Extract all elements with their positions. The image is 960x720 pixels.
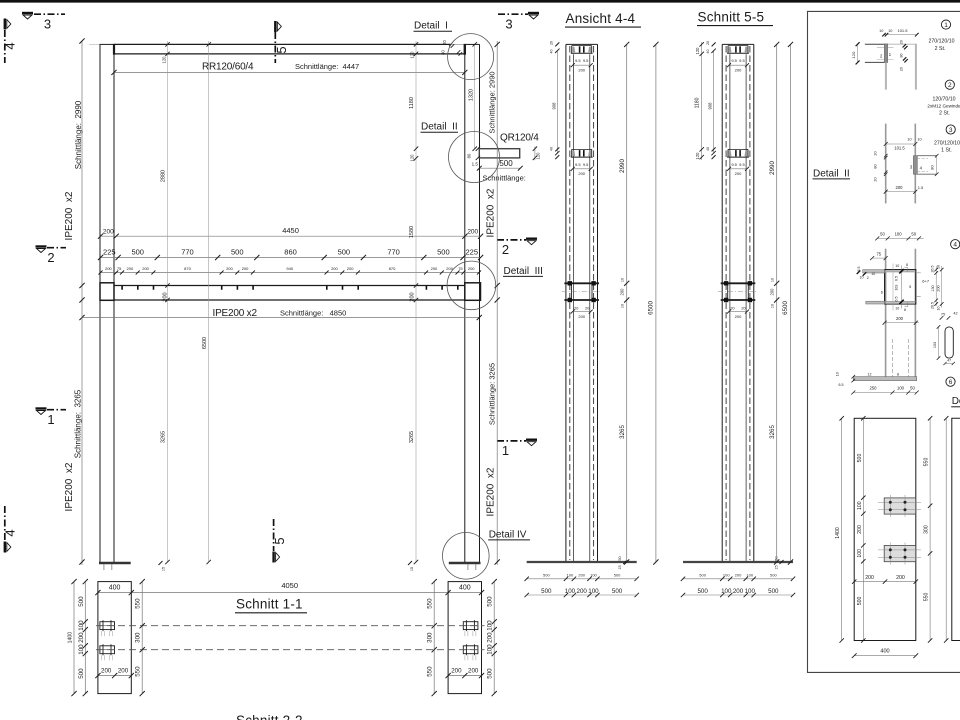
svg-text:2: 2 bbox=[867, 276, 869, 280]
detail 4 top dim 50/100/50 bbox=[877, 237, 923, 239]
svg-text:100: 100 bbox=[565, 588, 576, 595]
svg-text:200: 200 bbox=[577, 588, 588, 595]
svg-text:20: 20 bbox=[442, 40, 447, 45]
svg-text:500: 500 bbox=[612, 588, 623, 595]
svg-text:5: 5 bbox=[272, 537, 287, 544]
top beam bottom line bbox=[114, 53, 465, 55]
svg-text:26.5: 26.5 bbox=[931, 266, 935, 273]
svg-text:100: 100 bbox=[745, 588, 756, 595]
svg-text:200: 200 bbox=[896, 185, 904, 190]
section marker 4 upper-left bbox=[3, 19, 18, 64]
svg-text:400: 400 bbox=[109, 584, 121, 591]
svg-text:1180: 1180 bbox=[695, 97, 701, 108]
svg-text:40: 40 bbox=[550, 50, 554, 54]
svg-text:RR120/60/4: RR120/60/4 bbox=[202, 62, 254, 73]
svg-text:100: 100 bbox=[590, 573, 597, 578]
svg-text:120: 120 bbox=[410, 51, 415, 59]
detail 6 base plate bar bbox=[853, 377, 916, 381]
svg-text:47: 47 bbox=[947, 358, 951, 362]
svg-text:500: 500 bbox=[78, 668, 85, 679]
svg-text:120: 120 bbox=[851, 51, 856, 58]
svg-text:10: 10 bbox=[771, 278, 775, 282]
dim 400 + 4050 + 400 row bbox=[98, 592, 482, 594]
svg-text:2: 2 bbox=[502, 242, 509, 257]
svg-text:550: 550 bbox=[427, 666, 434, 677]
svg-text:500: 500 bbox=[768, 588, 779, 595]
left column anchor bolt stubs bbox=[103, 564, 105, 570]
section marker 1 right bbox=[497, 440, 537, 458]
svg-text:IPE200 x2: IPE200 x2 bbox=[64, 191, 75, 240]
detail 1 left dim 120 bbox=[857, 44, 859, 62]
svg-text:200: 200 bbox=[578, 573, 585, 578]
detail 4 right dims 26.5/130/26.5 and 10/200/10 bbox=[935, 266, 937, 306]
dim row 200/75/200/200/870/... bolt spacing bbox=[101, 272, 480, 274]
svg-text:120: 120 bbox=[695, 152, 700, 160]
svg-text:500: 500 bbox=[131, 247, 144, 256]
svg-text:4: 4 bbox=[953, 242, 957, 249]
middle beam bottom line bbox=[114, 299, 465, 301]
svg-text:500: 500 bbox=[541, 588, 552, 595]
left dim line Schnittlaenge 2990/3265 bbox=[81, 41, 83, 565]
svg-text:20: 20 bbox=[550, 41, 554, 45]
svg-text:550: 550 bbox=[135, 598, 142, 609]
svg-text:50: 50 bbox=[910, 386, 915, 391]
svg-text:8: 8 bbox=[897, 372, 899, 376]
top splice plate + bolts bbox=[728, 45, 748, 47]
section marker 5 bottom-middle bbox=[272, 519, 287, 563]
detail 1 drawing: beam end with plate on column bbox=[865, 43, 888, 45]
svg-text:270/120/10: 270/120/10 bbox=[929, 39, 955, 45]
svg-text:Schnittlänge: 2990: Schnittlänge: 2990 bbox=[488, 71, 497, 133]
svg-text:QR120/4: QR120/4 bbox=[500, 133, 539, 144]
svg-text:50: 50 bbox=[618, 556, 622, 560]
plan right dim 550/300/550 bbox=[929, 418, 931, 640]
svg-text:Det: Det bbox=[952, 396, 960, 407]
svg-text:10: 10 bbox=[895, 307, 899, 311]
svg-text:908: 908 bbox=[551, 102, 556, 110]
Schnitt 1-1 left footing bbox=[98, 582, 131, 694]
svg-text:IPE200 x2: IPE200 x2 bbox=[486, 188, 497, 237]
left column cap line bbox=[100, 43, 115, 45]
column outer edges bbox=[721, 44, 723, 562]
right column outer edge bbox=[479, 44, 481, 562]
svg-text:870: 870 bbox=[184, 266, 191, 271]
svg-text:10: 10 bbox=[895, 264, 899, 268]
QR120/4 stub piece bbox=[479, 149, 519, 158]
detail 4 left plate bolt ticks bbox=[857, 271, 867, 276]
column hidden dashed edges bbox=[569, 46, 571, 560]
svg-text:20: 20 bbox=[899, 40, 903, 44]
detail 2 circled number bbox=[945, 80, 954, 89]
right column outer cap bbox=[465, 43, 480, 45]
right column base plate bbox=[449, 562, 481, 565]
svg-text:Schnitt 5-5: Schnitt 5-5 bbox=[698, 10, 765, 25]
detail II right dim 80 bbox=[936, 156, 938, 175]
svg-text:20: 20 bbox=[874, 151, 878, 155]
svg-text:20: 20 bbox=[706, 41, 710, 45]
svg-text:2 St.: 2 St. bbox=[939, 111, 950, 117]
detail I circle bbox=[448, 34, 494, 80]
top splice plate + bolts bbox=[572, 45, 592, 47]
detail II circle bbox=[449, 132, 500, 183]
page top border bar bbox=[0, 0, 960, 3]
svg-text:9.5: 9.5 bbox=[575, 162, 581, 167]
svg-text:75: 75 bbox=[117, 266, 122, 271]
middle beam bolt ticks bbox=[122, 286, 458, 290]
svg-text:Detail III: Detail III bbox=[504, 266, 543, 277]
svg-text:200: 200 bbox=[103, 229, 114, 236]
svg-text:200: 200 bbox=[226, 266, 233, 271]
svg-text:6+7: 6+7 bbox=[922, 279, 930, 284]
svg-text:100: 100 bbox=[721, 588, 732, 595]
section marker 5 top-middle bbox=[274, 21, 289, 63]
svg-text:4: 4 bbox=[3, 529, 18, 536]
svg-text:200: 200 bbox=[735, 67, 742, 72]
section marker 3 top-right (flag at right end) bbox=[498, 13, 539, 32]
left footing outer dims 500/100/200/100/500 bbox=[84, 582, 86, 694]
svg-text:IPE200 x2: IPE200 x2 bbox=[64, 462, 75, 511]
left dim 908 bbox=[556, 51, 558, 153]
svg-text:IPE200 x2: IPE200 x2 bbox=[486, 467, 497, 516]
detail 3 circled number bbox=[946, 125, 955, 134]
svg-text:20: 20 bbox=[585, 307, 589, 311]
middle beam connection bbox=[721, 282, 756, 284]
svg-text:3265: 3265 bbox=[160, 431, 166, 443]
svg-text:120/70/10: 120/70/10 bbox=[932, 97, 955, 103]
middle beam left connection box bbox=[100, 283, 114, 301]
second splice plate + bolts bbox=[572, 148, 592, 150]
svg-text:10: 10 bbox=[879, 29, 883, 33]
svg-text:Detail I: Detail I bbox=[414, 21, 448, 32]
svg-text:200: 200 bbox=[162, 292, 168, 301]
detail II bottom dim 200/1.5 bbox=[886, 191, 916, 193]
svg-text:400: 400 bbox=[880, 649, 889, 655]
svg-text:200: 200 bbox=[118, 667, 129, 674]
right panel border bbox=[808, 11, 960, 672]
svg-text:300: 300 bbox=[427, 632, 434, 643]
svg-text:4050: 4050 bbox=[281, 581, 298, 590]
svg-text:2xM12 Gewinde: 2xM12 Gewinde bbox=[927, 104, 960, 109]
svg-text:300: 300 bbox=[135, 632, 142, 643]
detail II top dim 101.5 w 10/10 bbox=[886, 143, 916, 145]
svg-text:75: 75 bbox=[876, 251, 881, 256]
svg-text:500: 500 bbox=[437, 247, 450, 256]
QR dim 500 bbox=[479, 167, 520, 169]
Schnitt left dim 120/1180/120 bbox=[701, 42, 703, 160]
svg-text:Detail II: Detail II bbox=[421, 122, 458, 133]
svg-text:100: 100 bbox=[78, 644, 85, 655]
svg-text:26.5: 26.5 bbox=[931, 302, 935, 309]
inner dim line 120/1180/120/1580/200/3265 right bbox=[415, 41, 417, 562]
svg-text:500: 500 bbox=[857, 454, 863, 463]
detail 4 bolt axis line with bolt marks bbox=[901, 266, 903, 309]
svg-text:200: 200 bbox=[770, 288, 775, 296]
svg-text:101.5: 101.5 bbox=[894, 146, 905, 151]
svg-text:500: 500 bbox=[614, 573, 621, 578]
detail 4 bottom dim 200 bbox=[885, 322, 919, 324]
svg-text:200: 200 bbox=[578, 171, 585, 176]
svg-text:200: 200 bbox=[347, 266, 354, 271]
inner dim line 6500 bbox=[208, 41, 210, 562]
base plate bbox=[683, 561, 793, 563]
svg-text:10: 10 bbox=[771, 304, 775, 308]
detail II beam stub right bbox=[917, 155, 936, 157]
svg-text:200: 200 bbox=[735, 171, 742, 176]
Ansicht right dim 2990 w 10/200/10 bbox=[626, 44, 628, 562]
detail II left dims 20/80/20 bbox=[884, 154, 888, 176]
svg-text:200: 200 bbox=[142, 266, 149, 271]
svg-text:100: 100 bbox=[895, 232, 903, 237]
svg-text:Schnittlänge: 4447: Schnittlänge: 4447 bbox=[295, 62, 359, 71]
middle beam label leader line bbox=[82, 317, 479, 319]
svg-text:4: 4 bbox=[3, 42, 18, 49]
plan view base plate rectangle bbox=[854, 418, 916, 640]
svg-text:6.5: 6.5 bbox=[894, 276, 898, 281]
base dims rows 500/100/200/100/500 bbox=[683, 578, 793, 580]
svg-text:Schnittlänge: 3265: Schnittlänge: 3265 bbox=[488, 363, 497, 425]
svg-text:200: 200 bbox=[127, 266, 134, 271]
svg-text:200: 200 bbox=[468, 667, 479, 674]
svg-text:Detail II: Detail II bbox=[813, 168, 850, 179]
svg-text:500: 500 bbox=[487, 668, 494, 679]
svg-text:200: 200 bbox=[865, 575, 874, 581]
Ansicht 4-4 column bbox=[525, 41, 639, 597]
svg-text:15: 15 bbox=[410, 567, 414, 571]
inner dim line 120/2880/200/3265 bbox=[167, 41, 169, 562]
svg-text:550: 550 bbox=[427, 598, 434, 609]
svg-text:1.5: 1.5 bbox=[472, 162, 479, 167]
svg-text:50: 50 bbox=[880, 232, 885, 237]
svg-text:500: 500 bbox=[543, 573, 550, 578]
footing connecting dashed lines bbox=[96, 625, 485, 627]
svg-text:2880: 2880 bbox=[160, 170, 166, 182]
svg-text:15: 15 bbox=[775, 565, 779, 569]
svg-text:40: 40 bbox=[706, 50, 710, 54]
svg-text:500: 500 bbox=[338, 247, 351, 256]
svg-text:1: 1 bbox=[944, 22, 948, 29]
base plate bbox=[527, 561, 637, 563]
top beam top line gray extension bbox=[451, 43, 475, 45]
svg-text:1400: 1400 bbox=[835, 527, 841, 539]
svg-text:550: 550 bbox=[924, 458, 930, 467]
svg-text:250: 250 bbox=[870, 386, 878, 391]
svg-text:8.5: 8.5 bbox=[857, 267, 861, 272]
detail 4 box section QR120 bbox=[885, 270, 916, 304]
svg-text:9.5: 9.5 bbox=[731, 58, 737, 63]
svg-text:200: 200 bbox=[578, 67, 585, 72]
svg-text:103: 103 bbox=[894, 285, 898, 291]
base plate dim 15 ticks left/right bbox=[159, 561, 163, 565]
detail 4 inner dim line bbox=[892, 264, 894, 311]
svg-text:9.5: 9.5 bbox=[739, 162, 745, 167]
dim row 225/500/770/500/860/500/770/500/225 bbox=[101, 257, 481, 259]
svg-text:75: 75 bbox=[941, 312, 945, 316]
svg-text:200: 200 bbox=[733, 588, 744, 595]
svg-text:Schnittlänge: 3265: Schnittlänge: 3265 bbox=[74, 389, 83, 458]
footing bottom dims 200/200 bbox=[98, 675, 131, 677]
svg-text:3265: 3265 bbox=[409, 431, 415, 443]
detail 4 column gray edges bbox=[885, 249, 887, 377]
right footing inner dims 550/300/550 bbox=[433, 582, 435, 694]
svg-text:200: 200 bbox=[409, 292, 415, 301]
base dims rows 500/100/200/100/500 bbox=[527, 578, 637, 580]
svg-text:10: 10 bbox=[907, 138, 911, 142]
svg-text:1.5: 1.5 bbox=[918, 185, 924, 190]
svg-text:860: 860 bbox=[284, 247, 297, 256]
svg-text:9.5: 9.5 bbox=[583, 162, 589, 167]
Schnitt right dim 2990 w 10/200/10 bbox=[776, 44, 778, 562]
top beam RR120/60/4 top line bbox=[114, 43, 451, 45]
main frame: left column IPE200 x2 outer edge bbox=[99, 44, 101, 562]
column outer edges bbox=[565, 44, 567, 562]
svg-text:3: 3 bbox=[505, 17, 512, 32]
svg-text:80: 80 bbox=[466, 153, 471, 158]
svg-text:200: 200 bbox=[331, 266, 338, 271]
plan bolt plates bbox=[884, 498, 916, 514]
svg-text:1 St.: 1 St. bbox=[941, 148, 952, 154]
svg-text:2990: 2990 bbox=[619, 159, 626, 173]
detail 1 circled number bbox=[941, 20, 950, 29]
svg-text:6500: 6500 bbox=[202, 337, 208, 349]
svg-text:100: 100 bbox=[487, 620, 494, 631]
svg-text:6: 6 bbox=[949, 379, 953, 386]
plan inner dim line 500/100/200/100/500 bbox=[862, 418, 864, 640]
svg-text:200: 200 bbox=[451, 667, 462, 674]
dim line 1320 gray (top right) bbox=[474, 44, 476, 148]
svg-text:1320: 1320 bbox=[469, 89, 475, 101]
dim row 4450 overall bbox=[101, 235, 481, 237]
svg-text:200: 200 bbox=[937, 285, 941, 291]
svg-text:42: 42 bbox=[953, 311, 957, 315]
svg-text:200: 200 bbox=[105, 266, 112, 271]
svg-text:200: 200 bbox=[620, 288, 625, 296]
svg-text:Ansicht 4-4: Ansicht 4-4 bbox=[566, 11, 636, 26]
svg-text:Schnitt 2-2: Schnitt 2-2 bbox=[236, 713, 303, 720]
svg-text:2: 2 bbox=[948, 82, 952, 89]
svg-text:12: 12 bbox=[868, 373, 872, 377]
svg-text:200: 200 bbox=[857, 525, 863, 534]
svg-text:100: 100 bbox=[78, 620, 85, 631]
detail 1 column near face below plate bbox=[885, 63, 887, 90]
svg-text:20: 20 bbox=[874, 177, 878, 181]
svg-text:100: 100 bbox=[487, 644, 494, 655]
svg-text:100: 100 bbox=[588, 588, 599, 595]
svg-text:300: 300 bbox=[924, 525, 930, 534]
svg-text:1400: 1400 bbox=[68, 632, 74, 644]
svg-text:200: 200 bbox=[896, 575, 905, 581]
left column top weld bar bbox=[113, 44, 115, 55]
svg-text:8: 8 bbox=[906, 263, 908, 267]
detail 6 dashed anchor bolt lines bbox=[892, 339, 894, 377]
svg-text:Schnitt 1-1: Schnitt 1-1 bbox=[236, 597, 303, 612]
svg-text:10: 10 bbox=[871, 272, 875, 276]
svg-text:500: 500 bbox=[697, 588, 708, 595]
svg-text:500: 500 bbox=[770, 573, 777, 578]
middle beam IPE200 top line bbox=[114, 285, 465, 287]
svg-text:10: 10 bbox=[917, 138, 921, 142]
svg-text:200: 200 bbox=[242, 266, 249, 271]
left dim 908 bbox=[713, 51, 715, 153]
plan far left dim 1400 bbox=[841, 418, 843, 640]
Schnitt 1-1 right footing bbox=[448, 582, 481, 694]
svg-text:Schnittlänge: 4850: Schnittlänge: 4850 bbox=[280, 308, 346, 317]
svg-text:Schnittlänge: 2990: Schnittlänge: 2990 bbox=[74, 100, 83, 169]
right column end plate (thick) bbox=[464, 44, 466, 55]
svg-text:15: 15 bbox=[618, 565, 622, 569]
svg-text:80: 80 bbox=[930, 165, 935, 170]
svg-text:6500: 6500 bbox=[647, 301, 654, 315]
svg-text:Detail IV: Detail IV bbox=[489, 529, 527, 540]
svg-text:200: 200 bbox=[487, 632, 494, 643]
svg-text:2 St.: 2 St. bbox=[935, 46, 946, 52]
column inner edges bbox=[573, 54, 575, 562]
left column base plate bbox=[99, 562, 131, 565]
right column inner edge bbox=[464, 54, 466, 562]
svg-text:100: 100 bbox=[746, 573, 753, 578]
svg-text:IPE200 x2: IPE200 x2 bbox=[213, 308, 258, 319]
Schnitt 5-5 column bbox=[681, 41, 795, 597]
second splice plate + bolts bbox=[728, 148, 748, 150]
svg-text:870: 870 bbox=[389, 266, 396, 271]
detail 4 dim 75 bbox=[872, 257, 886, 259]
column inner edges bbox=[729, 54, 731, 562]
svg-text:9.5: 9.5 bbox=[739, 58, 745, 63]
section marker 2 left bbox=[36, 247, 67, 266]
svg-text:3: 3 bbox=[949, 127, 953, 134]
svg-text:120: 120 bbox=[161, 56, 166, 64]
svg-text:770: 770 bbox=[181, 247, 194, 256]
svg-text:1180: 1180 bbox=[409, 97, 415, 109]
left footing overall dim 1400 bbox=[73, 582, 75, 694]
detail IV circle bbox=[443, 533, 490, 580]
svg-text:1: 1 bbox=[502, 443, 509, 458]
plan inner dim 200/200 bbox=[854, 581, 916, 583]
svg-text:40: 40 bbox=[550, 147, 554, 151]
plan bottom dim 400 bbox=[854, 655, 916, 657]
svg-text:500: 500 bbox=[499, 159, 513, 168]
svg-text:9.5: 9.5 bbox=[575, 58, 581, 63]
Ansicht right dim 6500 bbox=[655, 44, 657, 562]
section marker 4 lower-left bbox=[3, 506, 18, 553]
svg-text:500: 500 bbox=[487, 596, 494, 607]
detail 4 part 5 bracket marks bbox=[905, 268, 908, 307]
svg-text:50: 50 bbox=[911, 232, 916, 237]
svg-text:100: 100 bbox=[857, 501, 863, 510]
svg-text:500: 500 bbox=[857, 596, 863, 605]
svg-text:770: 770 bbox=[387, 247, 400, 256]
detail 4 6+7 leader dashes bbox=[917, 272, 921, 274]
right footing outer dims 500/100/200/100/500 bbox=[493, 582, 495, 694]
svg-text:225: 225 bbox=[466, 247, 479, 256]
svg-text:100: 100 bbox=[897, 386, 905, 391]
svg-text:270/120/10: 270/120/10 bbox=[934, 141, 960, 147]
svg-text:10: 10 bbox=[937, 307, 941, 311]
svg-text:3: 3 bbox=[44, 17, 51, 32]
detail 4 circled number bbox=[951, 240, 960, 249]
detail 1 end plate bbox=[884, 44, 887, 63]
detail 6 circled number bbox=[946, 377, 955, 386]
svg-text:120: 120 bbox=[410, 154, 415, 162]
svg-text:200: 200 bbox=[101, 667, 112, 674]
svg-text:200: 200 bbox=[468, 266, 475, 271]
detail 1 column far edge bbox=[915, 44, 917, 89]
svg-text:2: 2 bbox=[47, 250, 54, 265]
svg-text:500: 500 bbox=[699, 573, 706, 578]
svg-text:200: 200 bbox=[896, 316, 904, 321]
Schnitt far right dim 6500 bbox=[790, 44, 792, 562]
svg-text:120: 120 bbox=[695, 47, 700, 55]
svg-text:6.5: 6.5 bbox=[839, 383, 844, 387]
